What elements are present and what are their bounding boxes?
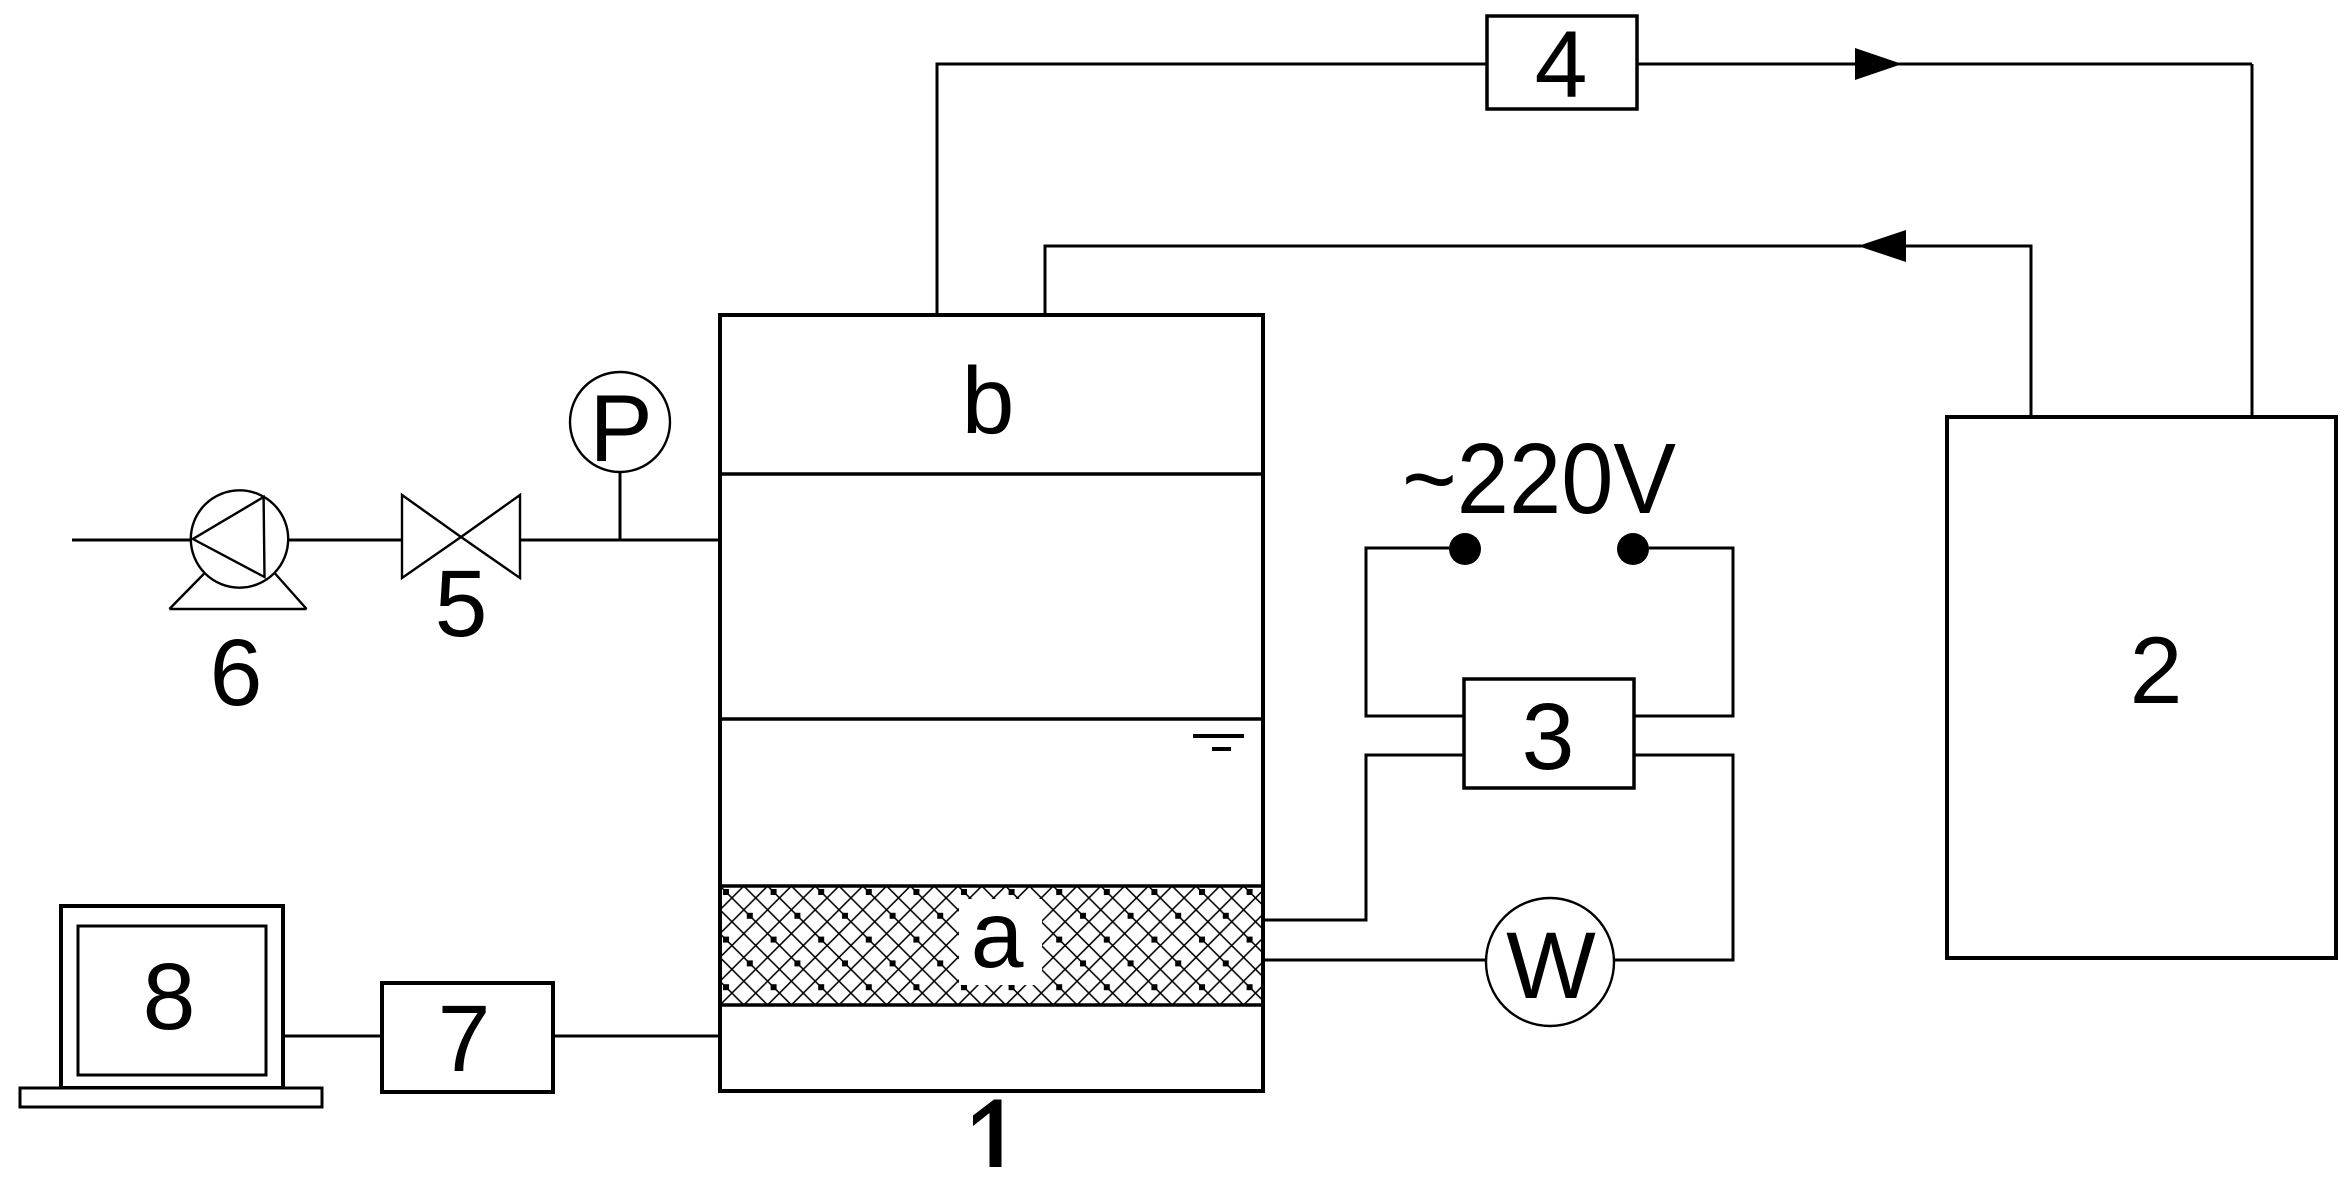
- box 7: [382, 983, 553, 1092]
- svg-text:6: 6: [210, 620, 263, 726]
- wire box3 left lower to heater: [1263, 755, 1464, 920]
- wattmeter W: [1486, 898, 1614, 1026]
- svg-text:b: b: [962, 348, 1015, 454]
- partition line below b: [720, 472, 1263, 476]
- wire gauge stem: [619, 472, 622, 540]
- box 4: [1487, 16, 1637, 109]
- arrow right: [1855, 48, 1902, 80]
- label 1: [973, 1100, 1002, 1168]
- valve 5: [402, 495, 520, 578]
- wire right supply to box3: [1634, 548, 1733, 716]
- wire return from box2 to tank: [1045, 246, 2031, 417]
- box 3: [1464, 679, 1634, 788]
- wire box3 right lower to wattmeter: [1614, 755, 1733, 960]
- wire down to box2: [2251, 64, 2254, 417]
- arrow left: [1858, 230, 1906, 262]
- wire valve to tank: [520, 539, 720, 542]
- wire pump to valve: [288, 539, 402, 542]
- svg-text:5: 5: [435, 551, 488, 657]
- water level symbol: [1193, 734, 1244, 738]
- tank 1: [720, 315, 1263, 1091]
- water line: [720, 717, 1263, 721]
- terminal dot left: [1449, 533, 1481, 565]
- laptop 8: [20, 906, 322, 1107]
- svg-text:a: a: [971, 882, 1024, 988]
- svg-text:8: 8: [143, 944, 196, 1050]
- svg-text:7: 7: [438, 986, 491, 1092]
- svg-text:P: P: [589, 376, 652, 482]
- wire inlet pipe: [72, 539, 190, 542]
- svg-text:4: 4: [1535, 12, 1588, 118]
- pump 6: [169, 490, 306, 609]
- wire box4 to box2: [1637, 63, 2252, 66]
- svg-text:3: 3: [1522, 684, 1575, 790]
- svg-text:W: W: [1506, 913, 1596, 1019]
- box 2: [1947, 417, 2336, 958]
- wire vapor outlet to box 4: [937, 64, 1487, 315]
- wire heater to wattmeter: [1263, 959, 1486, 962]
- wire laptop to box7: [283, 1035, 382, 1038]
- wire box7 to tank: [553, 1035, 720, 1038]
- svg-text:~220V: ~220V: [1402, 423, 1676, 535]
- heater a hatched region: [722, 887, 1261, 1004]
- svg-text:2: 2: [2130, 618, 2183, 724]
- pressure gauge P: [570, 372, 670, 472]
- terminal dot right: [1617, 533, 1649, 565]
- wire left supply to box3: [1366, 548, 1464, 716]
- label a: [959, 899, 1042, 985]
